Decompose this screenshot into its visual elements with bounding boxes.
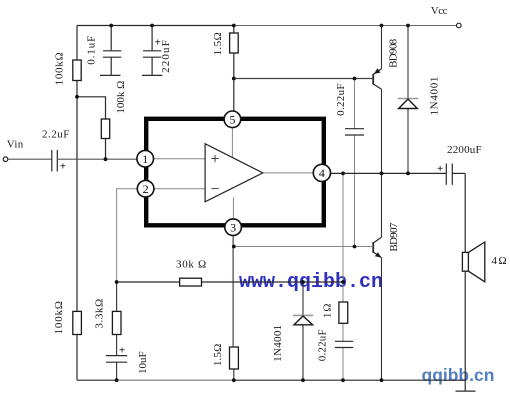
svg-text:1N4001: 1N4001	[429, 76, 441, 116]
svg-text:220uF: 220uF	[160, 39, 172, 73]
svg-text:+: +	[210, 151, 219, 168]
svg-text:1.5Ω: 1.5Ω	[212, 32, 224, 56]
svg-text:100kΩ: 100kΩ	[53, 52, 65, 86]
svg-text:1N4001: 1N4001	[272, 325, 284, 362]
svg-text:+: +	[119, 345, 125, 357]
svg-text:1: 1	[142, 152, 148, 166]
svg-text:5: 5	[229, 113, 235, 127]
svg-text:0.22uF: 0.22uF	[317, 329, 329, 361]
svg-text:+: +	[437, 163, 443, 175]
svg-text:4: 4	[319, 166, 325, 180]
svg-text:30k Ω: 30k Ω	[176, 259, 207, 271]
svg-text:2.2uF: 2.2uF	[42, 129, 70, 141]
svg-text:BD907: BD907	[388, 222, 400, 251]
svg-text:−: −	[210, 181, 219, 198]
svg-text:3: 3	[230, 220, 236, 234]
svg-text:1.5Ω: 1.5Ω	[212, 343, 224, 366]
svg-text:100k Ω: 100k Ω	[115, 81, 127, 114]
svg-text:1 Ω: 1 Ω	[322, 304, 334, 318]
svg-text:4 Ω: 4 Ω	[492, 255, 507, 267]
svg-text:2: 2	[143, 182, 149, 196]
svg-text:10uF: 10uF	[137, 351, 149, 374]
svg-text:0.1uF: 0.1uF	[85, 35, 97, 65]
svg-text:+: +	[60, 161, 66, 173]
svg-text:0.22uF: 0.22uF	[335, 83, 347, 116]
svg-text:100kΩ: 100kΩ	[53, 300, 65, 334]
svg-text:2200uF: 2200uF	[447, 144, 482, 156]
svg-text:Vin: Vin	[7, 139, 24, 151]
svg-text:qqibb.cn: qqibb.cn	[422, 365, 495, 385]
svg-text:BD908: BD908	[388, 38, 400, 67]
svg-text:3.3kΩ: 3.3kΩ	[94, 298, 106, 328]
svg-text:Vcc: Vcc	[431, 5, 448, 17]
